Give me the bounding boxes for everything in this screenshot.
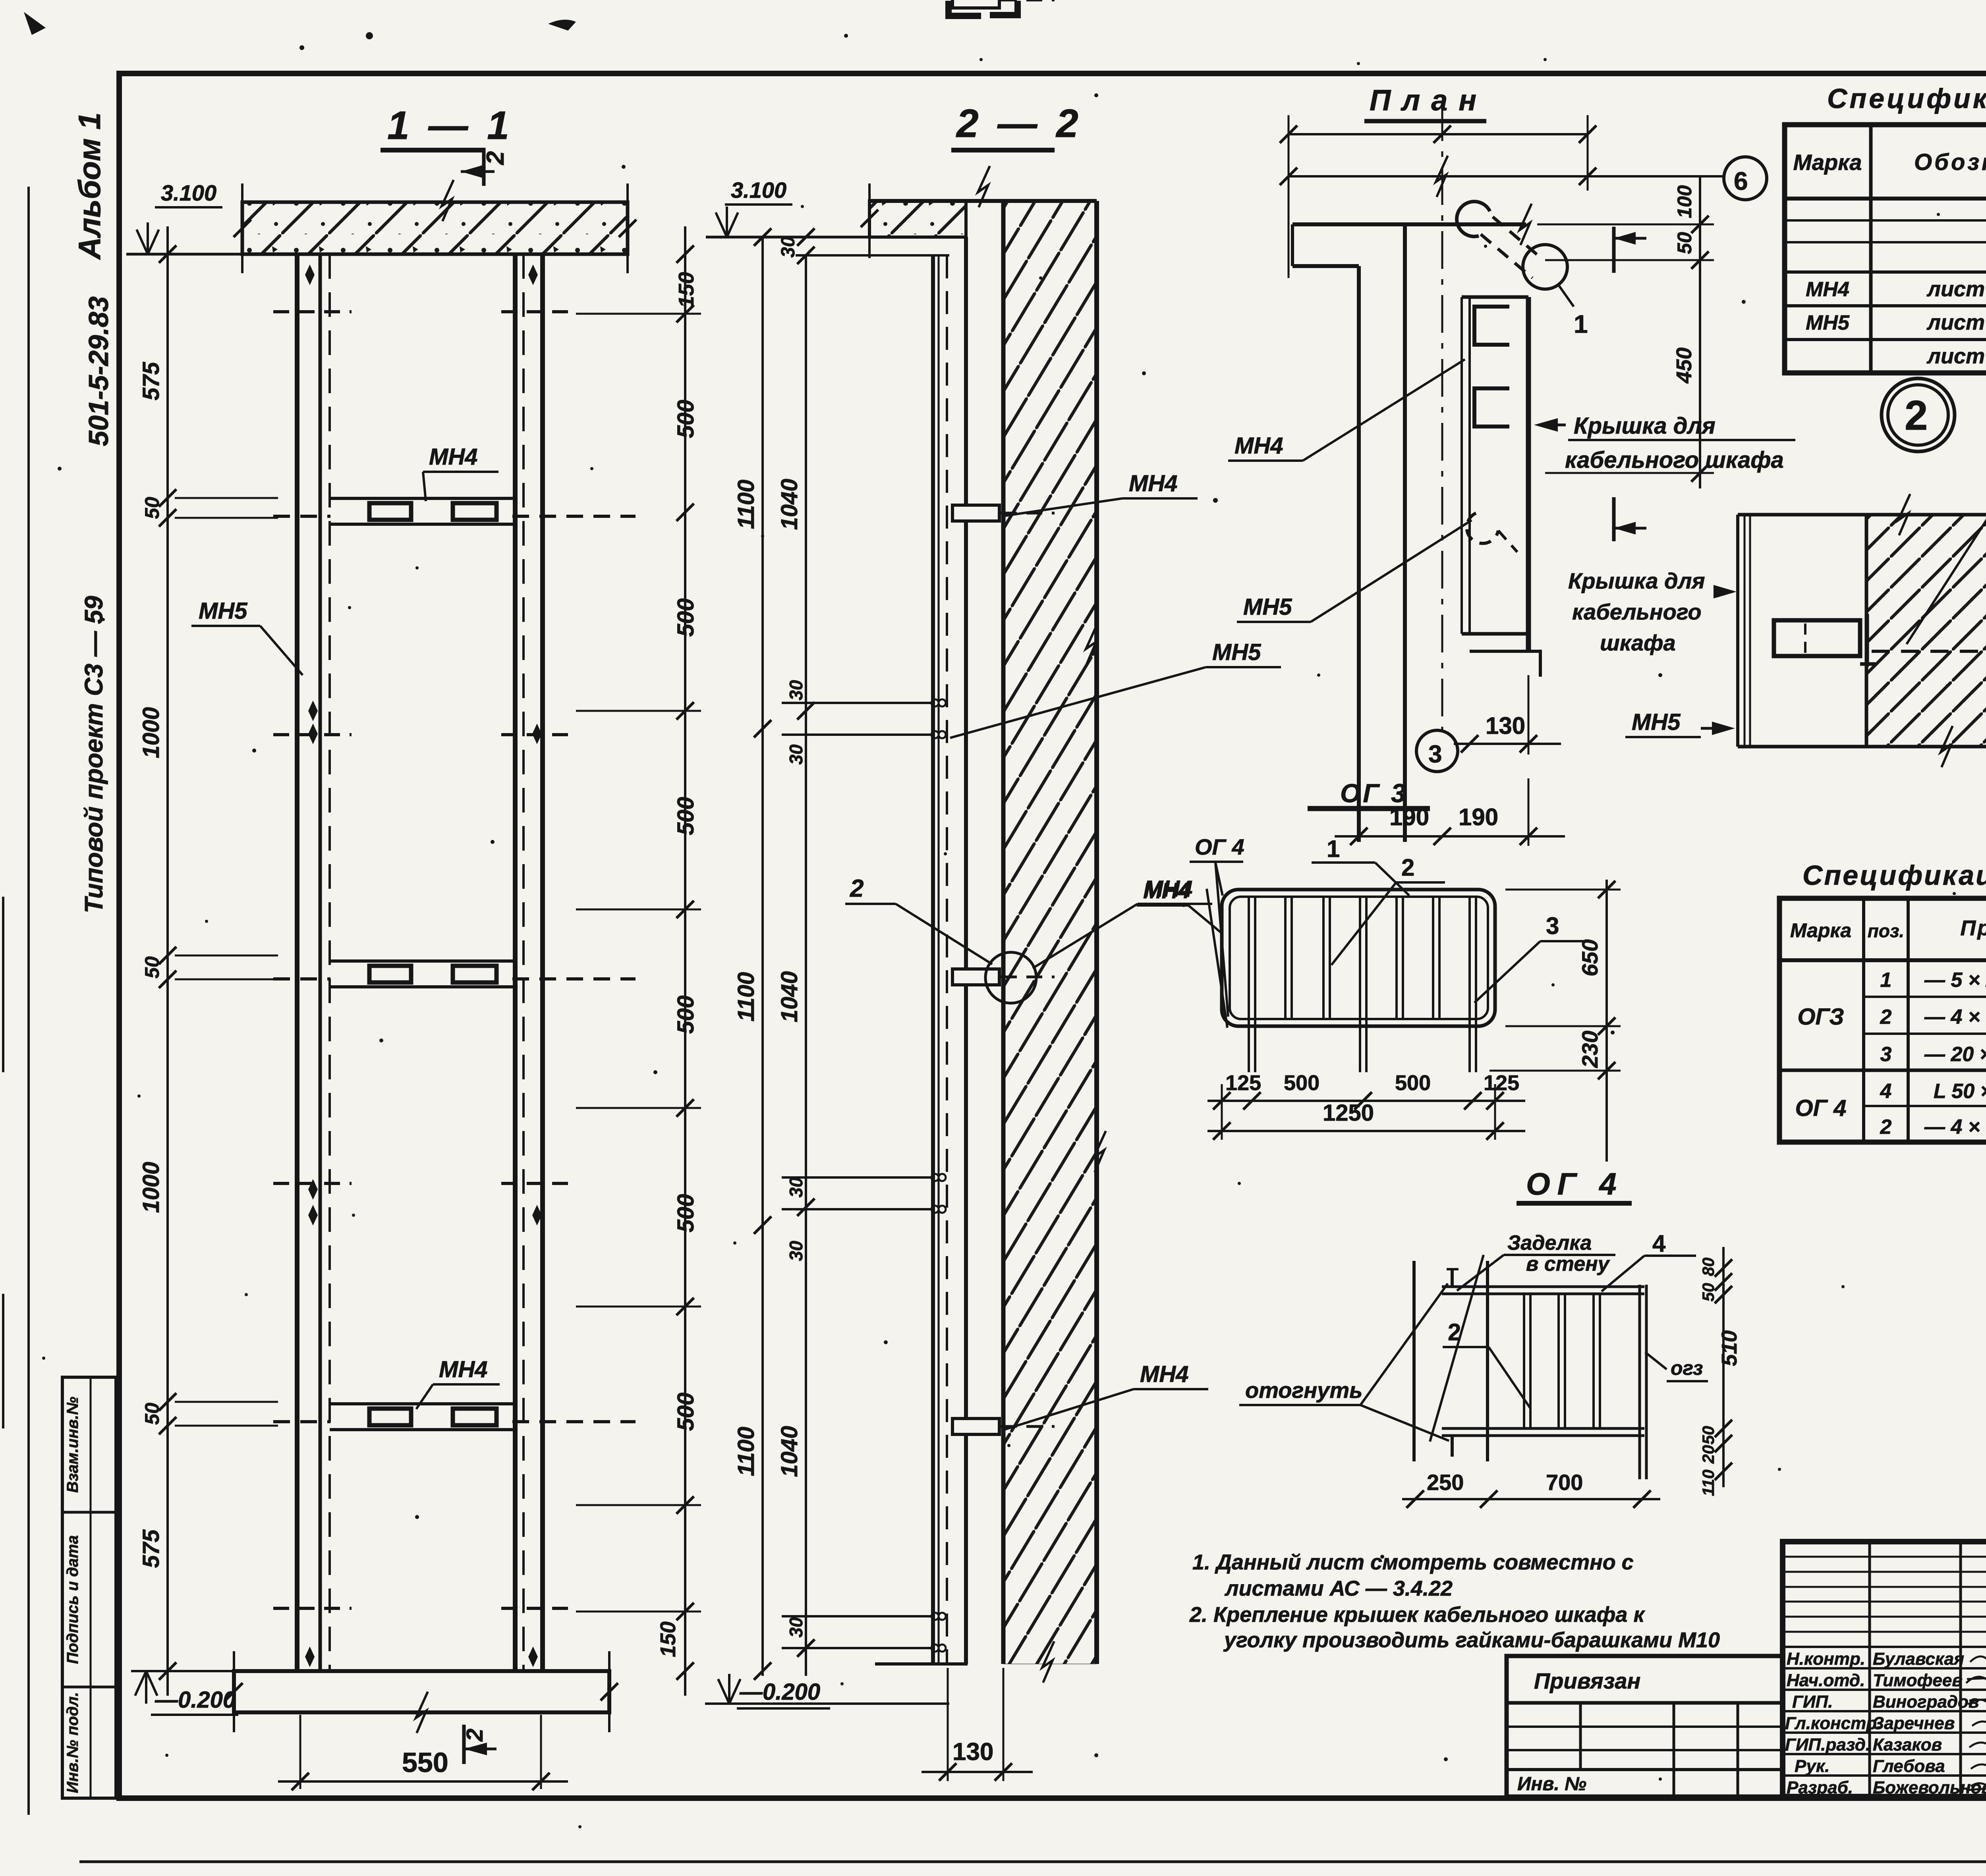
svg-text:Булавская: Булавская bbox=[1873, 1649, 1964, 1669]
svg-text:50: 50 bbox=[1699, 1426, 1717, 1445]
svg-text:Марка: Марка bbox=[1793, 150, 1862, 175]
svg-text:МН5: МН5 bbox=[1632, 709, 1681, 735]
svg-text:Спецификация металла на элемен: Спецификация металла на элемент огражден… bbox=[1802, 860, 1986, 891]
svg-text:МН4: МН4 bbox=[1143, 878, 1190, 903]
svg-text:МН5: МН5 bbox=[1806, 311, 1850, 334]
svg-text:ОГ 4: ОГ 4 bbox=[1526, 1166, 1624, 1201]
svg-text:— 4 × 12: — 4 × 12 bbox=[1924, 1116, 1986, 1139]
svg-text:30: 30 bbox=[786, 1241, 806, 1261]
svg-text:1: 1 bbox=[1574, 310, 1588, 338]
svg-text:Нач.отд.: Нач.отд. bbox=[1787, 1671, 1865, 1690]
svg-text:L 50 × 5: L 50 × 5 bbox=[1934, 1080, 1986, 1103]
svg-text:500: 500 bbox=[673, 598, 699, 637]
svg-text:МН4: МН4 bbox=[1234, 433, 1283, 459]
svg-text:500: 500 bbox=[1395, 1071, 1431, 1095]
svg-text:30: 30 bbox=[778, 236, 799, 258]
svg-text:МН4: МН4 bbox=[429, 444, 477, 470]
svg-text:Виноградов: Виноградов bbox=[1873, 1692, 1979, 1712]
svg-text:—0.200: —0.200 bbox=[739, 1679, 820, 1705]
svg-text:4: 4 bbox=[1880, 1080, 1892, 1103]
svg-text:30: 30 bbox=[786, 1177, 806, 1198]
svg-text:уголку производить гайками-бар: уголку производить гайками-барашками М10 bbox=[1223, 1628, 1720, 1652]
svg-text:Крышка для: Крышка для bbox=[1568, 568, 1705, 593]
svg-text:230: 230 bbox=[1577, 1031, 1602, 1068]
svg-text:2: 2 bbox=[462, 1729, 488, 1742]
svg-text:30: 30 bbox=[786, 680, 806, 701]
svg-text:Обозначение: Обозначение bbox=[1914, 149, 1986, 175]
svg-text:МН4: МН4 bbox=[1129, 471, 1177, 496]
svg-text:500: 500 bbox=[673, 1194, 699, 1233]
svg-text:шкафа: шкафа bbox=[1600, 630, 1676, 655]
svg-text:1: 1 bbox=[1327, 836, 1340, 862]
svg-text:— 5 × 25: — 5 × 25 bbox=[1924, 969, 1986, 992]
svg-text:2: 2 bbox=[1448, 1319, 1461, 1345]
svg-text:Рук.: Рук. bbox=[1795, 1756, 1830, 1776]
svg-text:50: 50 bbox=[1699, 1283, 1717, 1302]
svg-text:3: 3 bbox=[1546, 913, 1559, 939]
svg-text:1250: 1250 bbox=[1323, 1100, 1374, 1126]
svg-text:ОГ 4: ОГ 4 bbox=[1195, 834, 1244, 859]
svg-text:Н.контр.: Н.контр. bbox=[1787, 1649, 1865, 1669]
svg-text:лист АС — 22: лист АС — 22 bbox=[1926, 311, 1986, 334]
svg-text:2: 2 bbox=[1401, 854, 1414, 881]
svg-text:1040: 1040 bbox=[777, 971, 802, 1022]
svg-text:Профиль: Профиль bbox=[1960, 916, 1986, 940]
svg-text:1100: 1100 bbox=[733, 972, 759, 1022]
svg-text:Глебова: Глебова bbox=[1873, 1756, 1945, 1776]
svg-text:1: 1 bbox=[1880, 969, 1892, 992]
svg-text:Инв.№ подл.: Инв.№ подл. bbox=[64, 1692, 81, 1793]
svg-text:150: 150 bbox=[656, 1621, 680, 1657]
svg-text:Заречнев: Заречнев bbox=[1873, 1714, 1955, 1733]
svg-text:1000: 1000 bbox=[138, 1162, 164, 1213]
svg-text:Привязан: Привязан bbox=[1534, 1668, 1640, 1693]
svg-text:500: 500 bbox=[673, 1393, 699, 1431]
svg-text:2: 2 bbox=[482, 151, 509, 165]
svg-text:Альбом 1: Альбом 1 bbox=[72, 112, 107, 260]
svg-text:Божевольнов: Божевольнов bbox=[1873, 1778, 1986, 1797]
svg-text:Гл.констр.: Гл.констр. bbox=[1785, 1714, 1882, 1733]
svg-text:ГИП.разд.: ГИП.разд. bbox=[1785, 1735, 1870, 1754]
svg-text:Марка: Марка bbox=[1790, 919, 1851, 942]
svg-text:1040: 1040 bbox=[777, 479, 802, 530]
svg-text:кабельного шкафа: кабельного шкафа bbox=[1565, 447, 1784, 473]
svg-text:поз.: поз. bbox=[1868, 921, 1904, 941]
svg-text:50: 50 bbox=[141, 1403, 163, 1425]
svg-text:МН5: МН5 bbox=[1243, 594, 1292, 620]
svg-text:1040: 1040 bbox=[777, 1426, 802, 1477]
svg-text:50: 50 bbox=[141, 956, 163, 979]
svg-text:МН4: МН4 bbox=[1806, 278, 1849, 301]
svg-text:575: 575 bbox=[138, 362, 164, 401]
svg-text:575: 575 bbox=[138, 1529, 164, 1568]
svg-text:2: 2 bbox=[1880, 1006, 1892, 1029]
svg-text:130: 130 bbox=[1486, 712, 1525, 739]
svg-text:ГИП.: ГИП. bbox=[1792, 1692, 1833, 1712]
svg-text:80: 80 bbox=[1699, 1258, 1717, 1276]
svg-text:ОГЗ: ОГЗ bbox=[1797, 1004, 1844, 1030]
svg-text:1100: 1100 bbox=[733, 1427, 759, 1476]
svg-text:ОГ 4: ОГ 4 bbox=[1795, 1095, 1846, 1121]
svg-text:500: 500 bbox=[673, 400, 699, 438]
svg-text:3.100: 3.100 bbox=[731, 178, 786, 203]
svg-text:50: 50 bbox=[141, 497, 163, 519]
svg-text:50: 50 bbox=[1673, 232, 1696, 254]
svg-text:125: 125 bbox=[1225, 1071, 1261, 1095]
svg-text:МН5: МН5 bbox=[199, 598, 247, 624]
svg-text:Подпись и дата: Подпись и дата bbox=[64, 1535, 81, 1664]
svg-text:листами АС — 3.4.22: листами АС — 3.4.22 bbox=[1224, 1577, 1453, 1600]
svg-text:Крышка для: Крышка для bbox=[1574, 413, 1716, 439]
svg-text:2: 2 bbox=[1905, 392, 1928, 439]
svg-text:4: 4 bbox=[1652, 1230, 1666, 1257]
svg-text:3: 3 bbox=[1428, 741, 1442, 768]
svg-text:30: 30 bbox=[786, 1617, 806, 1638]
svg-text:1100: 1100 bbox=[733, 480, 759, 529]
svg-text:550: 550 bbox=[402, 1747, 448, 1778]
svg-text:План: План bbox=[1370, 84, 1488, 117]
svg-text:1. Данный лист смотреть совмес: 1. Данный лист смотреть совместно с bbox=[1192, 1550, 1634, 1574]
svg-text:250: 250 bbox=[1427, 1470, 1464, 1495]
svg-text:Спецификация элементов кабель: Спецификация элементов кабельного шкафа bbox=[1827, 83, 1986, 114]
svg-text:110: 110 bbox=[1699, 1470, 1717, 1496]
svg-text:Разраб.: Разраб. bbox=[1787, 1778, 1853, 1797]
svg-text:3.100: 3.100 bbox=[161, 180, 216, 205]
svg-text:Тимофеев: Тимофеев bbox=[1873, 1671, 1963, 1690]
svg-text:ОГ 3: ОГ 3 bbox=[1340, 778, 1408, 808]
svg-text:190: 190 bbox=[1459, 804, 1498, 830]
svg-text:500: 500 bbox=[1284, 1071, 1319, 1095]
svg-text:Взам.инв.№: Взам.инв.№ bbox=[64, 1397, 81, 1493]
svg-text:2: 2 bbox=[1880, 1116, 1892, 1139]
svg-text:лист АС — 22: лист АС — 22 bbox=[1926, 277, 1986, 301]
svg-text:700: 700 bbox=[1546, 1470, 1583, 1495]
svg-text:100: 100 bbox=[1673, 185, 1696, 218]
svg-text:500: 500 bbox=[673, 797, 699, 836]
svg-text:2. Крепление крышек кабельного: 2. Крепление крышек кабельного шкафа к bbox=[1189, 1603, 1645, 1627]
svg-text:30: 30 bbox=[786, 744, 806, 765]
svg-text:1000: 1000 bbox=[138, 707, 164, 758]
svg-text:125: 125 bbox=[1484, 1071, 1519, 1095]
svg-text:Типовой проект С3 — 59: Типовой проект С3 — 59 bbox=[79, 596, 108, 913]
svg-text:— 4 × 1.2: — 4 × 1.2 bbox=[1924, 1006, 1986, 1029]
svg-text:510: 510 bbox=[1717, 1330, 1741, 1366]
svg-text:Инв. №: Инв. № bbox=[1517, 1774, 1586, 1795]
svg-text:Заделка: Заделка bbox=[1507, 1231, 1592, 1255]
svg-text:20: 20 bbox=[1699, 1445, 1717, 1464]
svg-text:Казаков: Казаков bbox=[1873, 1735, 1942, 1754]
svg-text:6: 6 bbox=[1734, 167, 1748, 195]
svg-text:650: 650 bbox=[1577, 939, 1602, 976]
svg-text:кабельного: кабельного bbox=[1572, 599, 1702, 624]
svg-text:лист АС — 22: лист АС — 22 bbox=[1926, 344, 1986, 368]
svg-text:3: 3 bbox=[1880, 1043, 1892, 1066]
svg-text:МН4: МН4 bbox=[439, 1357, 487, 1382]
svg-text:МН4: МН4 bbox=[1140, 1361, 1188, 1387]
svg-text:1 — 1: 1 — 1 bbox=[387, 103, 513, 148]
svg-text:130: 130 bbox=[952, 1738, 993, 1766]
svg-text:2: 2 bbox=[850, 875, 864, 902]
svg-text:отогнуть: отогнуть bbox=[1245, 1378, 1362, 1403]
svg-text:2 — 2: 2 — 2 bbox=[956, 101, 1082, 146]
svg-text:501-5-29.83: 501-5-29.83 bbox=[83, 296, 114, 446]
svg-text:огз: огз bbox=[1671, 1357, 1703, 1379]
svg-text:— 20 × 30: — 20 × 30 bbox=[1924, 1043, 1986, 1066]
svg-text:450: 450 bbox=[1672, 347, 1696, 384]
svg-text:МН5: МН5 bbox=[1212, 639, 1261, 665]
svg-text:500: 500 bbox=[673, 996, 699, 1034]
svg-text:150: 150 bbox=[674, 272, 698, 308]
